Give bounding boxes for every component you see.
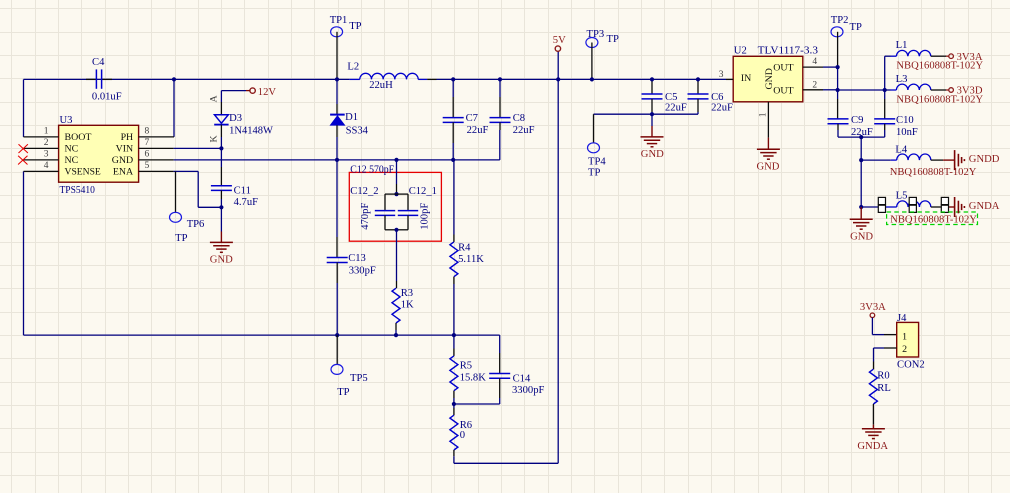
svg-text:3V3D: 3V3D xyxy=(957,86,983,97)
svg-text:SS34: SS34 xyxy=(346,125,369,136)
U3 pin 6 GND xyxy=(139,150,174,160)
inductor L2 xyxy=(349,73,427,79)
node D1 bottom junction xyxy=(335,158,339,162)
node C12 top split junction xyxy=(394,192,398,196)
wire GND bus from U3 pin6 xyxy=(174,130,500,160)
svg-text:5.11K: 5.11K xyxy=(458,254,484,265)
U2 pin 2 OUT xyxy=(803,80,838,90)
resistor R0 xyxy=(869,369,877,425)
D3 value label xyxy=(229,125,273,136)
svg-text:D1: D1 xyxy=(345,112,358,123)
ground below C5 xyxy=(641,114,664,147)
svg-text:2: 2 xyxy=(812,80,817,90)
svg-text:C10: C10 xyxy=(896,115,914,126)
testpoint TP2 xyxy=(831,27,843,67)
wire pin2 to L3 node xyxy=(838,89,885,91)
C12 group label xyxy=(350,164,394,175)
C7 value label xyxy=(467,125,489,136)
wire 3V3A to J4 pin1 xyxy=(872,318,896,335)
node R4 bottom junction xyxy=(452,333,456,337)
wire left vertical BOOT drop xyxy=(23,79,25,136)
TP3 designator label xyxy=(587,29,605,40)
wire bottom feedback bus xyxy=(24,334,500,336)
R6 designator label xyxy=(460,420,472,431)
testpoint TP3 xyxy=(586,38,598,80)
GND label below C5 xyxy=(641,149,664,160)
svg-text:22uF: 22uF xyxy=(711,103,733,114)
wire ENA to C11 bottom xyxy=(174,171,222,207)
capacitor C13 xyxy=(327,160,348,335)
inductor L1 xyxy=(885,50,949,90)
L5 value selection box xyxy=(887,212,978,225)
L5 value label NBQ160808T-102Y xyxy=(890,214,977,225)
svg-text:TP2: TP2 xyxy=(831,15,849,26)
svg-text:C12 570pF: C12 570pF xyxy=(350,164,394,175)
node C8 top junction xyxy=(498,77,502,81)
TP4 value label xyxy=(588,168,600,179)
power port 3V3D xyxy=(949,88,954,93)
capacitor C4 xyxy=(86,69,112,88)
resistor R4 xyxy=(450,160,458,335)
node C5 bottom junction xyxy=(650,112,654,116)
GND label below U2 xyxy=(757,161,780,172)
ground below C11 xyxy=(210,207,233,252)
U3 pin 2 NC xyxy=(24,138,59,148)
svg-text:L2: L2 xyxy=(347,62,359,73)
power port 12V xyxy=(221,88,255,102)
svg-text:BOOT: BOOT xyxy=(65,132,92,143)
U3 designator label xyxy=(60,115,73,126)
svg-text:U3: U3 xyxy=(60,115,73,126)
C12_2 value label 470pF xyxy=(360,203,371,230)
wire top bus left segment (PH/switch node) xyxy=(24,78,350,80)
node 5V junction xyxy=(556,77,560,81)
svg-text:CON2: CON2 xyxy=(897,360,925,371)
testpoint TP1 xyxy=(331,27,343,80)
svg-text:GNDA: GNDA xyxy=(857,441,888,452)
D3 pin K label xyxy=(209,135,220,143)
node TP3 junction xyxy=(590,77,594,81)
svg-text:12V: 12V xyxy=(258,87,277,98)
C8 designator label xyxy=(513,113,525,124)
C13 designator label xyxy=(348,253,366,264)
svg-text:1N4148W: 1N4148W xyxy=(229,125,273,136)
svg-text:TP: TP xyxy=(850,22,862,33)
3V3D label xyxy=(957,86,983,97)
TP4 designator label xyxy=(588,156,606,167)
svg-text:1: 1 xyxy=(44,127,49,137)
svg-text:5V: 5V xyxy=(553,35,566,46)
R5 designator label xyxy=(460,360,472,371)
C7 designator label xyxy=(466,113,478,124)
svg-text:RL: RL xyxy=(877,383,891,394)
L5 selection handle middle xyxy=(909,197,916,212)
svg-text:TP: TP xyxy=(349,21,361,32)
TP2 designator label xyxy=(831,15,849,26)
12V label xyxy=(258,87,277,98)
svg-text:TP: TP xyxy=(337,387,349,398)
svg-text:2: 2 xyxy=(44,138,49,148)
svg-text:R5: R5 xyxy=(460,360,472,371)
svg-text:22uH: 22uH xyxy=(369,80,393,91)
svg-text:TP: TP xyxy=(175,233,187,244)
C4 designator label xyxy=(92,57,105,68)
L2 value label xyxy=(369,80,393,91)
D1 value label xyxy=(346,125,369,136)
C9 designator label xyxy=(851,115,863,126)
svg-text:2: 2 xyxy=(902,344,907,355)
testpoint TP6 xyxy=(170,171,182,222)
svg-text:4: 4 xyxy=(812,57,817,67)
testpoint TP5 xyxy=(331,335,343,374)
svg-text:NBQ160808T-102Y: NBQ160808T-102Y xyxy=(890,167,977,178)
svg-text:D3: D3 xyxy=(229,113,242,124)
C10 value label xyxy=(896,127,918,138)
C12_2 designator label xyxy=(350,186,378,197)
U2 pin 3 IN xyxy=(719,70,733,80)
GND label below C11 xyxy=(210,254,233,265)
C11 value label xyxy=(234,197,259,208)
U2 designator label xyxy=(734,45,747,56)
GNDA label right xyxy=(969,201,1000,212)
svg-text:330pF: 330pF xyxy=(349,266,376,277)
svg-text:GND: GND xyxy=(850,231,873,242)
C5 value label xyxy=(665,103,687,114)
svg-text:OUT: OUT xyxy=(773,63,793,74)
svg-text:15.8K: 15.8K xyxy=(460,372,487,383)
U3 pin 5 ENA xyxy=(139,161,174,171)
C6 designator label xyxy=(711,92,723,103)
node C13 bottom junction xyxy=(335,333,339,337)
TP3 value label xyxy=(607,34,619,45)
capacitor C6 xyxy=(688,79,709,114)
TP1 value label xyxy=(349,21,361,32)
inductor L5 (selected) xyxy=(861,201,954,207)
svg-text:C11: C11 xyxy=(234,185,251,196)
svg-text:C4: C4 xyxy=(92,57,105,68)
svg-text:C12_1: C12_1 xyxy=(409,186,437,197)
svg-text:L5: L5 xyxy=(896,191,908,202)
node C7 bottom junction xyxy=(451,158,455,162)
D3 designator label xyxy=(229,113,242,124)
L3 designator label xyxy=(896,74,908,85)
svg-text:10nF: 10nF xyxy=(896,127,918,138)
GND label below trunk xyxy=(850,231,873,242)
svg-text:3V3A: 3V3A xyxy=(957,52,983,63)
node C6 top junction xyxy=(696,77,700,81)
svg-text:1: 1 xyxy=(902,332,907,343)
C10 designator label xyxy=(896,115,914,126)
wire pin4 to pin2 xyxy=(837,67,839,90)
svg-text:IN: IN xyxy=(741,73,751,84)
svg-text:R0: R0 xyxy=(877,371,889,382)
svg-text:NBQ160808T-102Y: NBQ160808T-102Y xyxy=(890,214,977,225)
node C12 tap junction xyxy=(394,158,398,162)
svg-text:TP1: TP1 xyxy=(330,15,348,26)
svg-text:R4: R4 xyxy=(458,242,471,253)
svg-text:0: 0 xyxy=(460,430,465,441)
node VIN/D3 junction xyxy=(219,146,223,150)
node R3 bottom junction xyxy=(394,333,398,337)
svg-text:K: K xyxy=(209,135,220,143)
svg-text:4.7uF: 4.7uF xyxy=(234,197,259,208)
wire trunk vertical xyxy=(860,137,862,207)
resistor R6 xyxy=(450,404,458,463)
svg-text:C6: C6 xyxy=(711,92,723,103)
R0 designator label xyxy=(877,371,889,382)
svg-text:GND: GND xyxy=(757,161,780,172)
capacitor C14 xyxy=(454,335,510,404)
TP6 value label xyxy=(175,233,187,244)
resistor R5 xyxy=(450,335,458,404)
svg-text:C13: C13 xyxy=(348,253,366,264)
capacitor C5 xyxy=(642,79,663,114)
L2 designator label xyxy=(347,62,359,73)
svg-text:C7: C7 xyxy=(466,113,478,124)
svg-text:U2: U2 xyxy=(734,45,747,56)
wire C9/C10 bottom xyxy=(838,136,885,138)
C14 value label xyxy=(512,385,544,396)
capacitor C10 xyxy=(874,90,895,137)
svg-text:L1: L1 xyxy=(896,40,908,51)
svg-text:4: 4 xyxy=(44,161,49,171)
L3 value label NBQ160808T-102Y xyxy=(896,94,983,105)
svg-text:22uF: 22uF xyxy=(665,103,687,114)
svg-text:ENA: ENA xyxy=(113,167,134,178)
C13 value label xyxy=(349,266,376,277)
svg-text:C12_2: C12_2 xyxy=(350,186,378,197)
wire C5/C6 bottom to TP4 xyxy=(594,113,699,115)
capacitor C8 xyxy=(490,79,511,130)
inductor L4 xyxy=(861,154,954,160)
svg-text:1K: 1K xyxy=(401,300,414,311)
svg-text:TPS5410: TPS5410 xyxy=(60,185,95,196)
node U2 pin4 junction xyxy=(836,65,840,69)
svg-text:7: 7 xyxy=(145,138,150,148)
U3 pin 7 VIN xyxy=(139,138,174,148)
D1 designator label xyxy=(345,112,358,123)
C9 value label xyxy=(851,127,873,138)
R6 value label xyxy=(460,430,465,441)
svg-text:L3: L3 xyxy=(896,74,908,85)
U3 pin 4 VSENSE xyxy=(24,161,59,171)
node C12 bottom merge junction xyxy=(394,228,398,232)
wire C12 stem xyxy=(396,160,398,194)
ground GNDA below R0 xyxy=(862,425,885,439)
svg-text:GNDA: GNDA xyxy=(969,201,1000,212)
svg-text:C9: C9 xyxy=(851,115,863,126)
C12_1 designator label xyxy=(409,186,437,197)
svg-text:470pF: 470pF xyxy=(360,203,371,230)
svg-text:VIN: VIN xyxy=(116,144,134,155)
svg-text:22uF: 22uF xyxy=(467,125,489,136)
node C5 top junction xyxy=(650,77,654,81)
node L5 junction xyxy=(859,205,863,209)
R4 value label xyxy=(458,254,484,265)
capacitor C9 xyxy=(828,90,849,137)
3V3A label bottom xyxy=(860,302,886,313)
svg-text:C14: C14 xyxy=(513,374,531,385)
node U2 pin2 junction xyxy=(836,88,840,92)
svg-text:C8: C8 xyxy=(513,113,525,124)
power port 3V3A bottom xyxy=(870,313,875,318)
L1 designator label xyxy=(896,40,908,51)
svg-text:TP: TP xyxy=(607,34,619,45)
TP5 designator label xyxy=(350,373,368,384)
capacitor C7 xyxy=(443,79,464,159)
U3 pin 3 NC xyxy=(24,150,59,160)
R4 designator label xyxy=(458,242,471,253)
svg-text:TP5: TP5 xyxy=(350,373,368,384)
power port 5V xyxy=(555,46,560,51)
R3 value label xyxy=(401,300,414,311)
node C9/C10 trunk junction xyxy=(859,135,863,139)
R0 value label RL xyxy=(877,383,891,394)
svg-text:A: A xyxy=(209,95,220,103)
svg-text:C5: C5 xyxy=(665,92,677,103)
wire VSENSE left vertical xyxy=(23,171,25,335)
capacitor C11 xyxy=(211,148,232,207)
C6 value label xyxy=(711,103,733,114)
C14 designator label xyxy=(513,374,531,385)
L5 selection handle right xyxy=(941,197,948,212)
J4 designator label xyxy=(897,313,907,324)
L4 value label NBQ160808T-102Y xyxy=(890,167,977,178)
J4 value label CON2 xyxy=(897,360,925,371)
node SW/TP1/D1/L2 junction xyxy=(335,77,339,81)
L4 designator label xyxy=(895,145,907,156)
testpoint TP4 xyxy=(588,114,600,153)
wire top bus right of L2 to U2 IN xyxy=(427,78,726,80)
C11 designator label xyxy=(234,185,251,196)
connector J4 body xyxy=(897,322,919,357)
svg-text:NC: NC xyxy=(65,144,79,155)
svg-text:TLV1117-3.3: TLV1117-3.3 xyxy=(758,45,818,56)
wire 5V vertical to R6 bottom xyxy=(454,51,558,463)
inductor L3 xyxy=(885,84,949,90)
op-amp U3 TPS5410 body xyxy=(59,125,139,182)
node L4 junction xyxy=(859,158,863,162)
GNDD label xyxy=(969,154,1000,165)
R5 value label xyxy=(460,372,487,383)
D3 pin A label xyxy=(209,95,220,103)
svg-text:3300pF: 3300pF xyxy=(512,385,544,396)
no-ERC marker pin 3 xyxy=(18,156,27,165)
L1 value label NBQ160808T-102Y xyxy=(896,61,983,72)
regulator U2 TLV1117-3.3 body xyxy=(733,56,803,102)
C5 designator label xyxy=(665,92,677,103)
L5 designator label xyxy=(896,191,908,202)
power port GNDD xyxy=(955,150,965,170)
svg-text:GNDD: GNDD xyxy=(969,154,1000,165)
svg-text:VSENSE: VSENSE xyxy=(65,167,101,178)
svg-text:100pF: 100pF xyxy=(419,203,430,230)
U3 pin 1 BOOT xyxy=(24,127,59,137)
diode D1 SS34 xyxy=(330,79,345,159)
ground below trunk xyxy=(850,207,873,229)
C4 value label xyxy=(92,91,122,102)
svg-text:TP4: TP4 xyxy=(588,156,606,167)
node R5/R6/C14 junction xyxy=(452,402,456,406)
svg-text:NC: NC xyxy=(65,155,79,166)
TP5 value label xyxy=(337,387,349,398)
svg-text:5: 5 xyxy=(145,161,150,171)
ground below U2 xyxy=(757,138,780,160)
svg-text:PH: PH xyxy=(121,132,134,143)
3V3A label right xyxy=(957,52,983,63)
C12 group outline box xyxy=(349,172,441,241)
capacitor C12_1 xyxy=(397,194,419,230)
U3 pin 8 PH xyxy=(139,127,174,137)
node C11 bottom junction xyxy=(219,205,223,209)
TP1 designator label xyxy=(330,15,348,26)
GNDA label below R0 xyxy=(857,441,888,452)
svg-text:3V3A: 3V3A xyxy=(860,302,886,313)
svg-text:3: 3 xyxy=(719,70,724,80)
U2 pin 1 GND xyxy=(758,102,768,138)
svg-text:TP3: TP3 xyxy=(587,29,605,40)
svg-text:OUT: OUT xyxy=(773,86,793,97)
svg-text:22uF: 22uF xyxy=(513,125,535,136)
resistor R3 xyxy=(392,230,400,335)
svg-text:8: 8 xyxy=(145,127,150,137)
C12_1 value label 100pF xyxy=(419,203,430,230)
svg-text:TP: TP xyxy=(588,168,600,179)
wire J4 pin2 to R0 xyxy=(874,348,897,369)
svg-text:GND: GND xyxy=(112,155,133,166)
svg-text:6: 6 xyxy=(145,150,150,160)
wire VIN to D3 xyxy=(174,147,222,149)
svg-text:J4: J4 xyxy=(897,313,907,324)
diode D3 1N4148W xyxy=(214,102,228,148)
TP6 designator label xyxy=(187,219,205,230)
svg-text:R3: R3 xyxy=(401,288,413,299)
svg-text:GND: GND xyxy=(210,254,233,265)
svg-text:0.01uF: 0.01uF xyxy=(92,91,122,102)
U2 value label xyxy=(758,45,818,56)
svg-text:L4: L4 xyxy=(895,145,907,156)
node C7 top junction xyxy=(451,77,455,81)
R3 designator label xyxy=(401,288,413,299)
C8 value label xyxy=(513,125,535,136)
wire PH pin vertical at C4 junction xyxy=(173,79,175,136)
svg-text:TP6: TP6 xyxy=(187,219,205,230)
5V label xyxy=(553,35,566,46)
no-ERC marker pin 2 xyxy=(19,144,28,153)
capacitor C12_2 xyxy=(375,194,397,230)
node L1/L3/C10 junction xyxy=(883,88,887,92)
power port 3V3A right xyxy=(949,54,954,59)
L5 selection handle left xyxy=(878,197,885,212)
TP2 value label xyxy=(850,22,862,33)
svg-text:1: 1 xyxy=(758,112,768,117)
power port GNDA right xyxy=(955,197,965,217)
U3 value label TPS5410 xyxy=(60,185,95,196)
node C4/PH junction xyxy=(172,77,176,81)
U2 pin 4 OUT xyxy=(803,57,838,67)
svg-text:3: 3 xyxy=(44,150,49,160)
svg-text:GND: GND xyxy=(641,149,664,160)
